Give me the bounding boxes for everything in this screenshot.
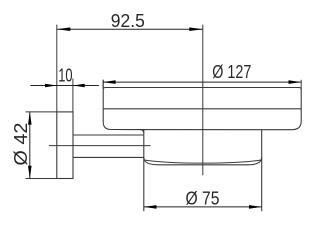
extension line plate bottom <box>26 178 57 180</box>
arm bottom edge wire <box>73 156 144 158</box>
dish right extension line <box>300 80 302 90</box>
cup left edge wire <box>143 130 145 212</box>
svg-text:Ø 75: Ø 75 <box>186 188 220 208</box>
wall plate <box>57 112 73 179</box>
svg-text:Ø 42: Ø 42 <box>11 123 31 166</box>
dimension Ø127 line <box>103 81 301 83</box>
extension line plate right <box>72 79 74 112</box>
dimension 10 line <box>30 85 99 87</box>
cup right edge wire <box>261 130 263 212</box>
dish rim line <box>103 108 301 110</box>
svg-text:Ø 127: Ø 127 <box>212 62 251 82</box>
dish outline <box>103 80 301 130</box>
dimension Ø42 line <box>29 112 31 179</box>
arm top edge wire <box>73 134 144 136</box>
dish-to-cup left fillet <box>140 130 143 133</box>
extension line dish left <box>102 80 104 88</box>
dimension 92.5 line <box>57 28 203 30</box>
cup inner bottom arc <box>144 160 261 163</box>
cup bottom <box>144 157 262 165</box>
extension line left (wall) <box>56 25 58 112</box>
dimension Ø75 line <box>144 206 262 208</box>
svg-text:92.5: 92.5 <box>111 11 145 31</box>
arm centerline <box>49 145 151 147</box>
vertical centerline <box>202 25 204 176</box>
extension line plate top <box>26 111 57 113</box>
svg-text:10: 10 <box>58 66 72 86</box>
